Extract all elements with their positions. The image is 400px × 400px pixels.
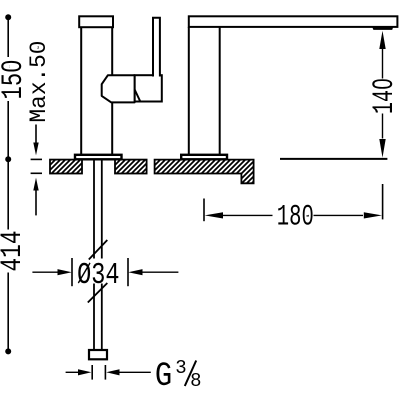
Max.50 tick deck bottom [31,172,42,174]
svg-text:3: 3 [175,357,186,379]
svg-text:Ø34: Ø34 [77,258,119,293]
svg-text:180: 180 [277,200,314,234]
hose break slash lower [88,283,108,303]
dot terminator top [5,14,11,20]
label 414 [0,230,29,271]
svg-text:Max.50: Max.50 [26,41,52,123]
hose end fitting G3/8 [89,350,107,359]
mixer top cap [79,16,113,27]
G3/8 extension tick left [91,365,93,380]
svg-text:8: 8 [190,370,201,392]
supply hose lower segment [94,284,102,351]
lever cartridge rectangle [135,75,162,101]
Ø34 extension tick right [127,258,129,286]
Ø34 extension tick left [71,258,73,286]
countertop deck left segment [50,160,82,174]
countertop deck middle segment [115,160,147,174]
Ø34 dimension left line and arrow [32,271,57,273]
140 arrow down [379,139,385,158]
dot terminator hose end [5,348,11,354]
label Ø34 [77,258,119,293]
svg-text:414: 414 [0,230,29,271]
dimension 150/414 vertical line [7,20,9,349]
countertop deck right segment with front lip [155,160,254,184]
G3/8 extension tick right [104,365,106,380]
svg-text:G: G [155,358,172,396]
spout horizontal arm [189,16,398,27]
G3/8 dimension right line and arrow [119,371,151,373]
spout aerator outlet [372,26,394,30]
mixer base plate [75,155,122,160]
180 arrow left [205,212,223,218]
Max.50 tick deck top [31,158,42,160]
hose break slash upper [89,240,108,260]
label 150 [0,60,30,100]
180 left extension tick [203,199,205,222]
180 arrow right [364,212,382,218]
spout vertical column [189,27,220,155]
Max.50 dimension upper line and arrow [35,125,37,143]
lever notch diagonal [135,90,141,102]
spout base plate [181,155,227,160]
label 180 [277,200,314,234]
G3/8 dimension left line and arrow [66,371,78,373]
masks for mono zero dots [9,64,13,68]
lever cartridge nose [102,75,135,102]
Max.50 dimension lower arrow and line [33,178,38,191]
label 140 [367,78,400,114]
dimension 180 line [223,214,363,216]
140 deck reference line [280,158,387,160]
Ø34 dimension right line and arrow [143,271,179,273]
mixer body column [81,27,112,155]
label Max.50 [26,41,52,123]
supply hose upper segment [94,160,102,259]
dot terminator deck level [5,156,11,162]
label G 3/8 [155,358,172,396]
140 arrow up [379,31,385,49]
dimension 140 vertical line [382,49,384,139]
lever rod [153,18,160,77]
180 right extension line [382,184,384,219]
